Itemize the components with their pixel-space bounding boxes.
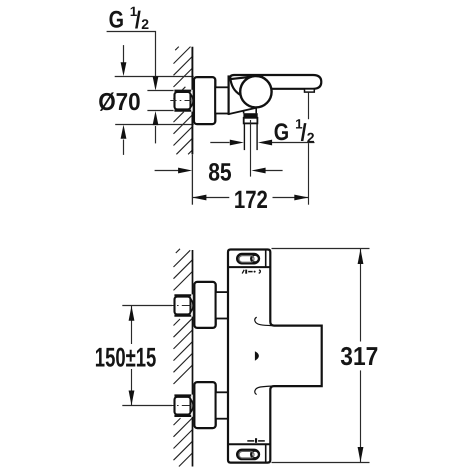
cap separator top bbox=[228, 266, 270, 268]
arrow up at nut bottom bbox=[155, 126, 157, 143]
dimension 317 bbox=[360, 249, 362, 342]
cap side line top bbox=[265, 250, 267, 268]
body bottom slant bbox=[228, 108, 256, 115]
wall surface line (top view) bbox=[191, 47, 193, 155]
connector upper (front view) bbox=[216, 292, 229, 318]
wall hatching (front view) bbox=[174, 249, 193, 467]
extension line 150 bottom bbox=[122, 405, 172, 407]
union nut in wall (side view) bbox=[170, 90, 193, 112]
safety stop button (black mark) bbox=[255, 351, 259, 361]
svg-text:85: 85 bbox=[208, 158, 232, 186]
marks above bottom cap bbox=[247, 438, 264, 443]
cap side line bottom bbox=[265, 444, 267, 462]
wall surface line (front view) bbox=[192, 250, 194, 467]
extension line 150 top bbox=[122, 305, 172, 307]
dimension 150±15 bbox=[131, 306, 133, 344]
dimension 172 bbox=[192, 197, 229, 199]
pipe centre extension line bbox=[250, 120, 252, 177]
svg-text:G: G bbox=[274, 119, 289, 146]
extension line escutcheon bottom bbox=[115, 124, 194, 126]
shower pipe bbox=[243, 124, 245, 150]
upper fillet curl bbox=[255, 317, 272, 325]
svg-text:172: 172 bbox=[234, 186, 268, 214]
extension line escutcheon top bbox=[115, 76, 194, 78]
svg-text:2: 2 bbox=[141, 16, 149, 32]
svg-text:2: 2 bbox=[307, 129, 315, 145]
svg-text:Ø70: Ø70 bbox=[98, 89, 141, 116]
wall hatching (top view) bbox=[174, 47, 193, 155]
union nut upper (front view) bbox=[167, 294, 193, 316]
handle oval top bbox=[237, 254, 259, 263]
escutcheon upper (front view) bbox=[194, 282, 215, 328]
outlet extension line bbox=[308, 93, 310, 120]
dimension 85 bbox=[155, 170, 179, 172]
spout outlet nub bbox=[305, 89, 315, 92]
extension line 317 top bbox=[272, 248, 370, 250]
leader G1/2 top: underline and bent leader with arrow bbox=[107, 32, 156, 77]
svg-text:G: G bbox=[109, 6, 124, 33]
G1/2 pipe dimension arrows bbox=[210, 142, 229, 144]
lower fillet curl bbox=[255, 386, 272, 394]
thermostat knob circle (side view) bbox=[240, 76, 271, 107]
faucet body cone (side view) bbox=[229, 76, 256, 114]
arrow up at escutcheon bottom bbox=[123, 140, 125, 155]
label G1/2 (top) bbox=[109, 4, 150, 34]
connector nipple (side view) bbox=[215, 87, 228, 113]
union nut lower (front view) bbox=[167, 395, 193, 417]
nut edge extension lines bbox=[147, 90, 174, 92]
neck under knob bbox=[243, 111, 245, 114]
extension line 317 bottom bbox=[272, 462, 370, 464]
lever handle (side view) bbox=[230, 75, 322, 89]
faucet body (front view) bbox=[228, 250, 322, 463]
label G1/2 (pipe) bbox=[274, 117, 315, 147]
escutcheon (side view) bbox=[194, 77, 215, 124]
cap separator bottom bbox=[228, 443, 270, 445]
arrow down at escutcheon top bbox=[123, 45, 125, 63]
svg-text:150±15: 150±15 bbox=[95, 343, 157, 373]
body mount face bbox=[228, 75, 230, 115]
temperature scale marks below top cap bbox=[242, 270, 260, 274]
pipe collar nut bbox=[243, 113, 257, 117]
escutcheon lower (front view) bbox=[194, 382, 215, 428]
cover plate concave edge bbox=[230, 77, 240, 95]
svg-text:317: 317 bbox=[340, 341, 378, 371]
connector lower (front view) bbox=[216, 392, 229, 418]
handle oval bottom bbox=[237, 450, 259, 459]
